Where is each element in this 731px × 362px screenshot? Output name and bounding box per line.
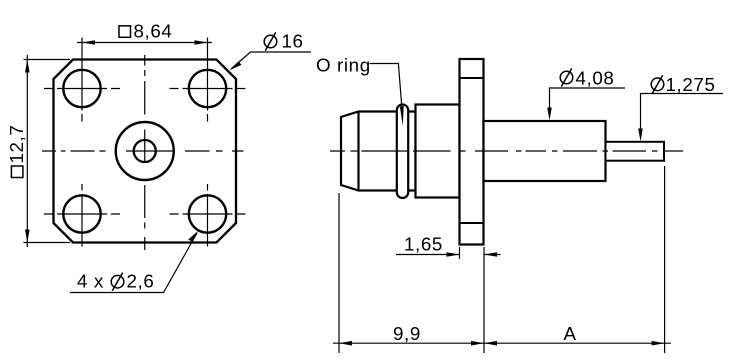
dimension 8,64 line with arrows bbox=[77, 42, 212, 44]
dimension 8,64 label bbox=[119, 26, 131, 38]
dimension 9,9 / A extension lines bbox=[339, 166, 665, 353]
dimension 12,7 extension lines bbox=[24, 60, 71, 243]
leader 4 x diameter 2,6 bbox=[70, 233, 197, 293]
svg-text:O ring: O ring bbox=[316, 55, 371, 76]
dimension 12,7 label (rotated) bbox=[6, 125, 27, 178]
svg-text:1,275: 1,275 bbox=[666, 74, 716, 95]
svg-text:4 x: 4 x bbox=[77, 271, 104, 292]
rear shaft diameter 4,08 bbox=[484, 121, 606, 181]
main vertical centerline bbox=[144, 55, 146, 250]
centerlines hole bottom-left bbox=[44, 184, 120, 247]
svg-text:4,08: 4,08 bbox=[576, 67, 615, 88]
label diameter 16 bbox=[264, 35, 277, 48]
flange chamfer line top bbox=[460, 77, 484, 79]
leader diameter 1,275 bbox=[641, 94, 724, 132]
mounting hole top-right bbox=[189, 70, 226, 107]
O ring leader bbox=[370, 64, 402, 108]
svg-text:12,7: 12,7 bbox=[6, 125, 27, 164]
leader diameter 16 bbox=[231, 52, 311, 69]
svg-text:2,6: 2,6 bbox=[127, 271, 155, 292]
svg-text:9,9: 9,9 bbox=[393, 323, 421, 344]
dimension 1,65 extension lines bbox=[460, 247, 485, 353]
dimension 1,65 line with outside arrows bbox=[396, 254, 501, 256]
side view centerline bbox=[330, 150, 683, 152]
svg-text:16: 16 bbox=[282, 31, 304, 52]
flange plate (side) bbox=[460, 59, 484, 245]
mounting hole bottom-left bbox=[63, 195, 100, 232]
leader diameter 4,08 bbox=[550, 88, 626, 110]
svg-text:A: A bbox=[564, 323, 577, 344]
svg-text:8,64: 8,64 bbox=[134, 20, 173, 41]
label diameter 4,08 bbox=[560, 71, 573, 84]
label diameter 1,275 bbox=[651, 78, 664, 91]
centerlines hole top-left bbox=[44, 38, 120, 122]
dimension line 9,9 and A bbox=[333, 342, 671, 344]
center bore inner circle bbox=[134, 140, 156, 162]
flange square outline with chamfered corners bbox=[54, 60, 237, 243]
mounting hole bottom-right bbox=[189, 195, 226, 232]
flange chamfer line bottom bbox=[460, 222, 484, 224]
connector nose body (tapered plug) bbox=[341, 112, 416, 191]
centerlines hole top-right bbox=[170, 38, 246, 122]
dimension 12,7 line with arrows bbox=[26, 55, 28, 247]
contact pin diameter 1,275 bbox=[606, 142, 665, 161]
nose taper edge bbox=[357, 112, 359, 191]
mounting hole top-left bbox=[63, 70, 100, 107]
barrel section bbox=[416, 105, 460, 198]
O-ring (stadium) bbox=[397, 105, 408, 199]
centerlines hole bottom-right bbox=[170, 184, 246, 247]
center bore outer circle bbox=[116, 122, 174, 180]
svg-text:1,65: 1,65 bbox=[404, 234, 443, 255]
main horizontal centerline bbox=[42, 150, 244, 152]
